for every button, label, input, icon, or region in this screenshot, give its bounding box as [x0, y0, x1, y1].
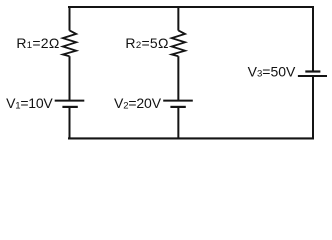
wire top bus from node A to node C: [68, 6, 314, 8]
wire right branch bottom (V3 to node F): [312, 77, 314, 139]
svg-text:V1=10V: V1=10V: [6, 95, 53, 111]
wire middle branch middle (R2 to V2): [177, 56, 179, 100]
svg-text:V2=20V: V2=20V: [114, 95, 162, 111]
wire left branch bottom (V1 to node D): [69, 107, 71, 139]
svg-text:R2=5Ω: R2=5Ω: [125, 35, 168, 51]
wire right branch top (node C to V3): [312, 6, 314, 71]
wire left branch top (node A to R1): [69, 6, 71, 31]
svg-text:V3=50V: V3=50V: [248, 63, 296, 79]
battery V2 negative plate (short): [170, 106, 185, 108]
wire left branch middle (R1 to V1): [69, 56, 71, 100]
wire bottom bus from node D to node F: [68, 137, 314, 139]
battery V1 positive plate (long): [55, 100, 85, 102]
resistor R2 zigzag: [172, 30, 185, 56]
wire middle branch top (node B to R2): [177, 6, 179, 31]
svg-text:R1=2Ω: R1=2Ω: [16, 35, 59, 51]
battery V3 negative plate (short): [305, 70, 320, 72]
battery V2 positive plate (long): [163, 100, 193, 102]
wire middle branch bottom (V2 to node E): [177, 107, 179, 139]
battery V3 positive plate (long): [298, 75, 327, 77]
battery V1 negative plate (short): [62, 106, 77, 108]
resistor R1 zigzag: [63, 30, 76, 56]
